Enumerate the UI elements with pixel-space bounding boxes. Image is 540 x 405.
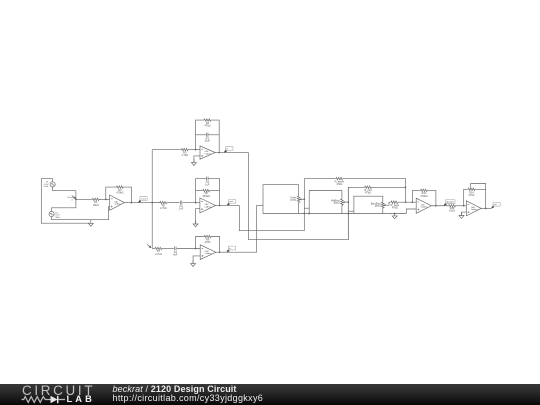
wire V5 bottom rail to op-amp plus leg xyxy=(52,206,109,220)
wire feedback top loop OA6 xyxy=(471,184,486,209)
wire pot box1 xyxy=(263,185,299,214)
node junction rail2 summing xyxy=(405,186,407,188)
node junction bus xyxy=(151,202,153,204)
resistor R5 xyxy=(160,201,167,204)
node A vertical wire xyxy=(303,179,305,231)
op-amp OA2 xyxy=(200,146,215,159)
voltage source V1 xyxy=(50,182,55,187)
wire pot3 wiper jog to R11 xyxy=(386,202,390,205)
wire pot1 bottom lead xyxy=(298,203,300,214)
wire OA4 plus leg xyxy=(193,256,200,264)
resistor R11 xyxy=(391,201,398,204)
wire feedback mid left OA2 xyxy=(196,134,207,136)
ground G4 xyxy=(192,260,194,263)
node junction feedback OA6 xyxy=(463,205,465,207)
wire top rail to R9 xyxy=(304,178,335,180)
wire feedback right OA5 xyxy=(427,190,436,205)
wire R10 to summing vertical xyxy=(371,186,405,188)
node flag band1 tag xyxy=(224,150,227,153)
resistor R13 series xyxy=(449,205,456,208)
node junction OA4 output feedback xyxy=(219,251,221,253)
wire bus corner to R7 xyxy=(152,248,155,250)
node junction ground rail xyxy=(394,213,396,215)
wire feedback top right OA3 xyxy=(208,179,219,206)
wire R3 to OA2 xyxy=(188,149,200,151)
wire OA6 output xyxy=(481,207,491,209)
wire OA2 output to route down xyxy=(215,152,248,154)
resistor R7 xyxy=(155,247,162,250)
capacitor C1 feedback OA2 xyxy=(205,133,207,137)
wire feedback left OA4 xyxy=(196,237,205,249)
wire feedback left OA2 xyxy=(196,120,205,150)
op-amp OA4 xyxy=(200,245,216,260)
resistor R3 xyxy=(181,148,188,151)
wire V1 top loop to ground rail xyxy=(41,179,91,224)
wire vertical bus xyxy=(151,150,153,249)
capacitor C2 series xyxy=(179,201,181,205)
node junction feedback stage3 xyxy=(195,248,197,250)
resistor R6 feedback OA3 xyxy=(203,189,210,192)
resistor R12 feedback OA5 xyxy=(421,189,428,192)
potentiometer POT1 xyxy=(297,196,300,203)
wire C4 to OA4 xyxy=(177,248,200,250)
wire pot box2 xyxy=(309,191,342,214)
wire pot3 bottom lead xyxy=(382,208,384,214)
wire R1 to op-amp OA1 inverting input xyxy=(99,198,110,200)
wire bus to R3 xyxy=(152,149,181,151)
node flag Vout tag xyxy=(491,206,494,209)
node junction pot1 wiper xyxy=(303,198,305,200)
wire R7 to C4 xyxy=(162,248,174,250)
wire feedback left OA6 xyxy=(464,189,469,205)
wire OA4 output xyxy=(216,251,257,253)
wire R9 to summing vertical xyxy=(343,179,406,203)
wire OA3 plus leg xyxy=(196,209,200,224)
wire stage3 route up to pot box1 xyxy=(257,205,263,252)
wire input node to R1 xyxy=(76,198,93,200)
voltage source V5 xyxy=(49,212,54,217)
wire rail2 to R10 xyxy=(348,186,364,188)
node flag amp_out tag xyxy=(138,200,141,203)
resistor R14 feedback OA6 xyxy=(468,188,475,191)
wire feedback mid left OA3 xyxy=(196,190,203,192)
wire V1 bottom to input node xyxy=(53,187,76,199)
node junction pot2 wiper xyxy=(347,201,349,203)
capacitor C3 feedback OA3 xyxy=(206,177,208,181)
resistor R9 xyxy=(336,177,343,180)
wire R11 to OA5 inverting input xyxy=(398,201,416,203)
wire OA6 plus leg xyxy=(462,212,467,216)
wire pot box3 xyxy=(354,196,383,213)
op-amp OA1 xyxy=(110,195,125,210)
capacitor C4 series xyxy=(174,247,176,251)
node junction OA1 output feedback xyxy=(131,202,133,204)
wire OA5 plus leg from rail xyxy=(406,209,416,214)
wire feedback left OA1 xyxy=(106,187,117,199)
wire feedback mid right OA2 xyxy=(208,134,219,136)
wire stage1 route down and right xyxy=(248,153,348,240)
node junction feedback R2 xyxy=(105,199,107,201)
resistor R2 feedback OA1 xyxy=(117,186,124,189)
ground G3 xyxy=(195,221,197,224)
wire band1 vertical through rail xyxy=(347,187,349,239)
wire stub to box2 xyxy=(304,207,309,209)
op-amp OA3 xyxy=(200,198,216,213)
wire feedback left OA3 xyxy=(196,179,207,203)
wire V5 top to input node xyxy=(52,199,76,211)
node junction feedback OA5 xyxy=(412,201,414,203)
node junction OA6 output feedback xyxy=(485,208,487,210)
wire feedback mid right OA3 xyxy=(210,190,220,192)
wire bus to R5 xyxy=(152,202,160,204)
node junction feedback stage1 xyxy=(195,149,197,151)
node flag Speaker tag xyxy=(444,203,447,206)
wire feedback right OA1 xyxy=(123,187,131,203)
node junction OA5 output feedback xyxy=(435,205,437,207)
node junction band1 rail xyxy=(347,213,349,215)
ground G1 xyxy=(90,220,92,224)
node flag Vin xyxy=(72,195,75,198)
wire pot2 bottom lead xyxy=(341,205,343,213)
potentiometer POT3 xyxy=(382,202,385,208)
node junction OA3 output feedback xyxy=(219,205,221,207)
resistor R4 feedback OA2 xyxy=(204,119,211,122)
wire R13 to OA6 xyxy=(456,205,467,207)
wire R5 to C2 xyxy=(167,202,180,204)
wire stage2 route down right to node A xyxy=(239,205,304,230)
wire feedback left OA5 xyxy=(412,190,420,202)
wire OA2 plus leg xyxy=(194,156,200,163)
node flag band3 tag xyxy=(227,250,230,253)
wire OA3 output xyxy=(216,204,240,206)
node flag band3 input arrow xyxy=(147,245,150,248)
node junction V1 V5 xyxy=(75,199,77,201)
node flag band2 tag xyxy=(227,203,230,206)
resistor R1 xyxy=(92,198,99,201)
node junction node A rail xyxy=(303,213,305,215)
wire feedback resistor right OA6 xyxy=(475,188,486,190)
op-amp OA5 xyxy=(416,198,431,213)
op-amp OA6 xyxy=(466,201,481,216)
node junction feedback stage2 xyxy=(195,202,197,204)
ground G5 on rail xyxy=(394,214,396,216)
wire feedback right OA2 xyxy=(211,120,219,152)
wire OA1 output xyxy=(124,202,160,204)
wire C2 to OA3 xyxy=(183,202,200,204)
ground G6 xyxy=(461,213,463,216)
node junction OA2 output feedback xyxy=(218,152,220,154)
resistor R8 feedback OA4 xyxy=(204,235,211,238)
wire stub to box3 xyxy=(348,210,354,212)
wire ground rail xyxy=(263,213,406,215)
potentiometer POT2 xyxy=(341,199,344,205)
wire feedback right OA4 xyxy=(211,237,220,253)
wire OA5 output xyxy=(431,205,448,207)
node junction summing vertical xyxy=(405,201,407,203)
node junction box2 left rail xyxy=(308,213,310,215)
resistor R10 xyxy=(365,186,372,189)
ground G2 xyxy=(193,159,195,163)
